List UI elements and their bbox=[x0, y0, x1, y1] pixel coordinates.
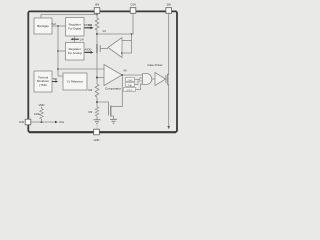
chip bottom edge emphasis bbox=[29, 132, 176, 134]
svg-text:VDD: VDD bbox=[39, 103, 45, 107]
wire: dim line bbox=[31, 121, 55, 123]
tag box OSC bbox=[126, 78, 135, 82]
pad VIN bbox=[94, 8, 100, 14]
ground G2 bbox=[110, 118, 117, 120]
svg-text:INI: INI bbox=[124, 70, 127, 73]
buffer U4 bbox=[155, 73, 166, 86]
transistor Q4 output FET bbox=[165, 75, 167, 83]
svg-text:For Digital: For Digital bbox=[68, 27, 81, 31]
svg-text:VIN: VIN bbox=[95, 3, 99, 7]
wire: output node down to Q3 bbox=[121, 75, 123, 107]
svg-text:OSC: OSC bbox=[128, 80, 133, 82]
box Thermal Shutdown (TSD) bbox=[34, 71, 52, 92]
wire: Vref to comparator + bbox=[58, 68, 104, 70]
svg-text:CSN: CSN bbox=[130, 3, 136, 7]
svg-text:For Analog: For Analog bbox=[68, 51, 82, 55]
node comparator output bbox=[121, 74, 123, 76]
svg-text:Vref: Vref bbox=[51, 23, 56, 26]
wire to ground bbox=[96, 116, 98, 120]
wire: source down bbox=[168, 85, 170, 127]
wire: U1 input loop bbox=[122, 40, 132, 42]
op-amp U1 (error amp, points left) bbox=[108, 38, 122, 58]
wire bbox=[135, 78, 143, 80]
pad CSN bbox=[130, 8, 136, 14]
tag box TSD bbox=[126, 83, 135, 87]
svg-text:R3: R3 bbox=[89, 110, 93, 114]
wire bbox=[135, 81, 143, 85]
svg-text:LIN: LIN bbox=[80, 38, 84, 41]
wire: Q3 source bbox=[111, 116, 114, 119]
box Regulator For Digital bbox=[66, 18, 85, 37]
wire bbox=[136, 84, 143, 90]
node rail tap bbox=[131, 33, 133, 35]
node U1 minus bbox=[121, 52, 123, 54]
wire: into V reference box bbox=[58, 75, 63, 77]
wire: comparator output bbox=[122, 74, 142, 76]
chip outline border bbox=[28, 11, 177, 132]
svg-text:SW: SW bbox=[167, 3, 172, 7]
label LIN arrow bbox=[73, 38, 79, 40]
wire bbox=[152, 78, 155, 80]
wire: Vref bus down bbox=[57, 26, 59, 76]
transistor Q3 dim FET bbox=[97, 102, 109, 107]
wire: between regulators bbox=[74, 36, 76, 43]
wire: SW rail from pad3 to drain bbox=[168, 13, 170, 74]
svg-text:AVDD: AVDD bbox=[85, 49, 92, 52]
wire: Q3 drain bbox=[111, 106, 123, 108]
wire: to analog reg bbox=[58, 50, 66, 52]
svg-text:Vd: Vd bbox=[103, 29, 107, 33]
node bbox=[57, 68, 59, 70]
arrow Dim bbox=[55, 121, 58, 124]
wire: node A rail to pad2 bbox=[97, 13, 133, 35]
label TSD arrow bbox=[52, 81, 56, 83]
wire ground to GND pad bbox=[96, 124, 98, 129]
box Regulator For Analog bbox=[66, 43, 85, 61]
node bbox=[96, 101, 98, 103]
wire to Q4 gate bbox=[166, 78, 167, 80]
wire: Q1 source down bbox=[96, 53, 98, 84]
pad SW bbox=[166, 8, 172, 14]
svg-text:1V Reference: 1V Reference bbox=[67, 80, 83, 84]
svg-text:DIM: DIM bbox=[19, 120, 24, 124]
transistor Q1 pass FET bbox=[96, 44, 98, 53]
svg-text:Comparator: Comparator bbox=[105, 86, 121, 90]
wire: VIN pad lead bbox=[96, 13, 98, 18]
wire: comparator - input bbox=[97, 77, 104, 79]
node Vref bbox=[57, 25, 59, 27]
resistor R4 pullup bbox=[40, 109, 44, 120]
pad GND bbox=[94, 129, 100, 135]
box V Reference bbox=[63, 73, 87, 90]
wire: Vref out bbox=[52, 25, 66, 27]
wire: Q1 gate bbox=[100, 48, 108, 50]
node bbox=[57, 50, 59, 52]
and-gate U3 bbox=[143, 74, 152, 85]
svg-text:TSD: TSD bbox=[53, 78, 58, 81]
wire: R1 to node A bbox=[96, 30, 98, 44]
node bbox=[41, 121, 43, 123]
svg-text:R2: R2 bbox=[89, 88, 93, 92]
node sense tap bbox=[96, 77, 98, 79]
svg-text:UVLO: UVLO bbox=[127, 90, 133, 92]
box Bandgap bbox=[34, 18, 52, 34]
resistor R3 bbox=[95, 107, 99, 116]
wire bbox=[96, 97, 98, 107]
svg-text:(TSD): (TSD) bbox=[39, 83, 47, 87]
svg-text:GND: GND bbox=[94, 138, 100, 142]
comparator U2 bbox=[104, 65, 122, 86]
resistor R2 sense bbox=[95, 84, 99, 97]
node: supply junction bbox=[96, 14, 98, 16]
node A bbox=[96, 33, 98, 35]
svg-text:Gate Driver: Gate Driver bbox=[147, 63, 162, 67]
resistor R1 bbox=[95, 18, 99, 30]
ground G1 bbox=[94, 119, 101, 121]
tag box UVLO bbox=[124, 88, 136, 92]
svg-text:100k: 100k bbox=[34, 112, 40, 116]
pad DIM bbox=[25, 119, 31, 125]
svg-text:Bandgap: Bandgap bbox=[37, 24, 49, 28]
svg-text:Dim: Dim bbox=[60, 120, 65, 124]
arrow at bottom bbox=[167, 126, 170, 129]
wire: bandgap supply rail bbox=[41, 15, 97, 19]
svg-text:TSD: TSD bbox=[128, 85, 133, 87]
